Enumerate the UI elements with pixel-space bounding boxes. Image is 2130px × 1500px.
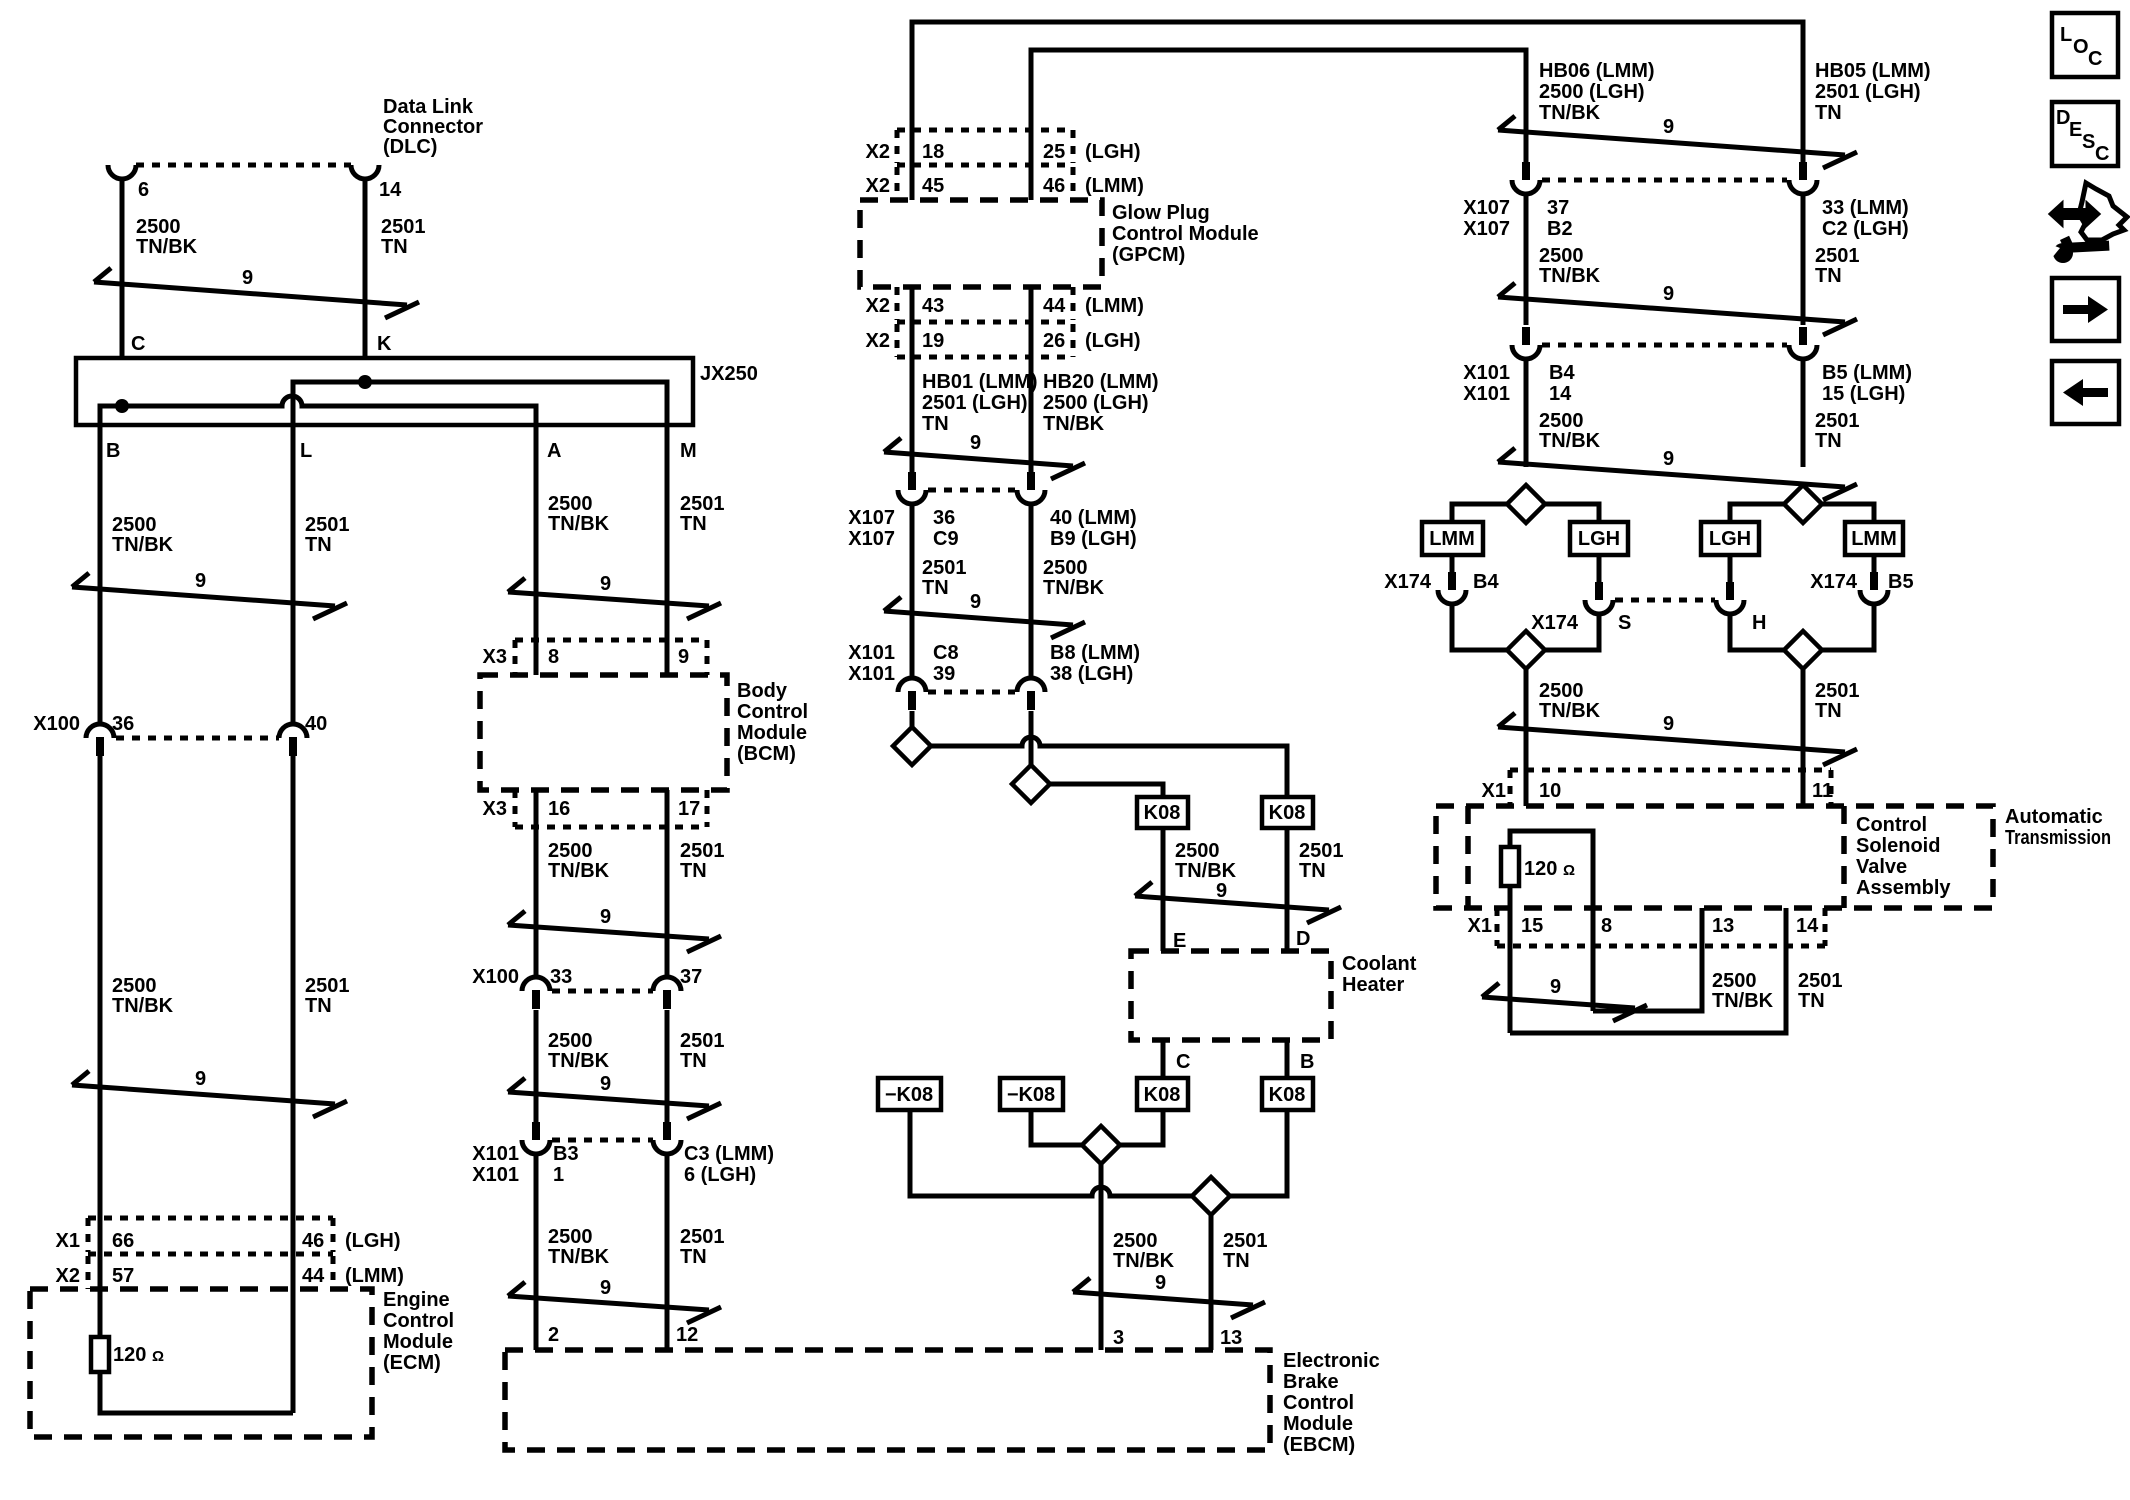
svg-text:6: 6 (138, 179, 149, 201)
net tag LMM (right) (1845, 522, 1903, 555)
svg-text:9: 9 (1663, 713, 1674, 735)
wire 2500 TN/BK splice S3 to EBCM pin 3 (1099, 1164, 1104, 1350)
icon DESC button (2052, 102, 2118, 166)
wire label 2501 TN (1299, 840, 1344, 882)
svg-text:TN: TN (305, 534, 332, 556)
wire label 2501 TN (1798, 970, 1843, 1012)
svg-text:Ω: Ω (1563, 862, 1575, 879)
connector X101 labels (1463, 362, 1510, 405)
svg-text:S: S (2082, 131, 2095, 153)
svg-text:HB06 (LMM): HB06 (LMM) (1539, 60, 1655, 82)
wire 2500 TN/BK below X100 (98, 756, 103, 1337)
svg-text:B2: B2 (1547, 218, 1573, 240)
svg-text:19: 19 (922, 330, 944, 352)
svg-text:8: 8 (1601, 915, 1612, 937)
wire label 2500 TN/BK (136, 216, 198, 258)
inline connector X100 pin 36 (86, 724, 114, 756)
svg-text:Automatic: Automatic (2005, 806, 2103, 828)
wire 2500 TN/BK right (1524, 193, 1529, 325)
wire ECM internal loop (100, 1372, 293, 1413)
svg-text:40: 40 (305, 713, 327, 735)
svg-text:HB01 (LMM): HB01 (LMM) (922, 371, 1038, 393)
svg-text:(ECM): (ECM) (383, 1352, 441, 1374)
svg-text:Control: Control (383, 1310, 454, 1332)
svg-text:2500: 2500 (548, 1030, 593, 1052)
wire label 2500 TN/BK (1113, 1230, 1175, 1272)
svg-text:Module: Module (383, 1331, 453, 1353)
wire HB20 (LMM) 2500 (LGH) TN/BK down from GPCM (1029, 287, 1034, 472)
svg-text:36: 36 (933, 507, 955, 529)
twisted-pair symbol, mid pair, label 9 (884, 591, 1085, 638)
wire LMM box to X174 B4 (1450, 555, 1455, 572)
pin C8 / 39 labels (933, 642, 959, 685)
svg-text:K08: K08 (1144, 802, 1181, 824)
junction block JX250 (76, 358, 693, 425)
svg-text:S: S (1618, 612, 1631, 634)
inline connector X174 pin S (1585, 582, 1613, 614)
ECM label (383, 1289, 454, 1374)
wire 2500 TN/BK to EBCM pin 2 (534, 1153, 539, 1350)
twisted-pair symbol, left pair upper, label 9 (72, 570, 347, 619)
svg-text:TN/BK: TN/BK (1043, 413, 1105, 435)
svg-text:Module: Module (737, 722, 807, 744)
inline connector X107 pin 40/B9 (1017, 472, 1045, 504)
svg-text:6 (LGH): 6 (LGH) (684, 1164, 756, 1186)
svg-text:36: 36 (112, 713, 134, 735)
svg-text:−K08: −K08 (1007, 1084, 1055, 1106)
svg-text:2501: 2501 (922, 557, 967, 579)
svg-text:L: L (2060, 24, 2072, 46)
GPCM connector row X2 (pins 43 / 44, LMM) (866, 287, 1144, 322)
svg-text:TN/BK: TN/BK (1539, 430, 1601, 452)
wire label HB01 (922, 371, 1038, 435)
svg-text:33: 33 (550, 966, 572, 988)
svg-text:X2: X2 (866, 330, 890, 352)
inline connector X100 pin 33 (522, 977, 550, 1009)
wire label 2500 TN/BK (548, 840, 610, 882)
svg-text:2500: 2500 (1539, 410, 1584, 432)
wire 2501 TN pin M down (665, 440, 670, 675)
Automatic Transmission box (1436, 806, 1993, 908)
svg-text:9: 9 (600, 573, 611, 595)
wire label 2501 TN (680, 1226, 725, 1268)
wire bus 2500 TN/BK top (912, 22, 1803, 200)
svg-text:46: 46 (302, 1230, 324, 1252)
wire -K08 mid to splice S3 (1031, 1110, 1082, 1145)
icon back arrow button (2052, 361, 2119, 424)
svg-text:X2: X2 (866, 295, 890, 317)
BCM connector row X3 (pins 16 / 17) (483, 790, 707, 827)
svg-text:X107: X107 (848, 528, 895, 550)
svg-text:16: 16 (548, 798, 570, 820)
twisted-pair symbol, BCM pair upper, label 9 (508, 573, 721, 619)
svg-text:X101: X101 (1463, 362, 1510, 384)
svg-text:2501: 2501 (1815, 680, 1860, 702)
svg-text:15 (LGH): 15 (LGH) (1822, 383, 1905, 405)
svg-text:9: 9 (600, 906, 611, 928)
svg-text:HB20 (LMM): HB20 (LMM) (1043, 371, 1159, 393)
svg-text:C3 (LMM): C3 (LMM) (684, 1143, 774, 1165)
wire LMM box to X174 B5 (1872, 555, 1877, 572)
svg-text:Assembly: Assembly (1856, 877, 1951, 899)
svg-text:2501: 2501 (680, 493, 725, 515)
svg-text:9: 9 (242, 267, 253, 289)
ECM connector row X1 (pins 66 / 46, LGH) (56, 1218, 401, 1254)
wire pin 15 down (1508, 886, 1513, 1033)
svg-text:Coolant: Coolant (1342, 953, 1417, 975)
svg-text:33 (LMM): 33 (LMM) (1822, 197, 1909, 219)
svg-text:C: C (2088, 48, 2102, 70)
twisted-pair symbol, left pair lower, label 9 (72, 1068, 347, 1117)
svg-text:2501: 2501 (305, 975, 350, 997)
wire 2500 TN/BK splice S7 to transmission (1524, 669, 1529, 806)
wire label 2500 TN/BK (1539, 410, 1601, 452)
svg-text:X3: X3 (483, 798, 507, 820)
svg-text:37: 37 (1547, 197, 1569, 219)
inline connector X101 pin C8/39 (898, 678, 926, 710)
transmission connector row X1 (pins 10 / 11) (1482, 770, 1834, 806)
wire label 2501 TN (1815, 410, 1860, 452)
svg-text:46: 46 (1043, 175, 1065, 197)
svg-text:X107: X107 (848, 507, 895, 529)
svg-text:Valve: Valve (1856, 856, 1907, 878)
wire splice S1 to K08 branch with hop (930, 737, 1287, 797)
svg-text:(BCM): (BCM) (737, 743, 796, 765)
wire K08 lower-left to splice S3 (1120, 1110, 1163, 1145)
svg-text:X101: X101 (848, 642, 895, 664)
wire B4 to splice S7 (1452, 603, 1508, 650)
svg-text:K08: K08 (1269, 1084, 1306, 1106)
svg-text:25: 25 (1043, 141, 1065, 163)
wire label 2500 TN/BK (112, 514, 174, 556)
splice S5 (1507, 485, 1545, 523)
junction dot C (115, 399, 129, 413)
svg-text:B4: B4 (1473, 571, 1499, 593)
wire label 2501 TN (922, 557, 967, 599)
wire splice S5 to LGH branch (1545, 504, 1599, 522)
svg-text:X107: X107 (1463, 197, 1510, 219)
connector X174 dashed link S-H (1615, 598, 1715, 603)
svg-text:TN/BK: TN/BK (1539, 700, 1601, 722)
svg-text:2500: 2500 (1539, 245, 1584, 267)
splice S7 (1507, 631, 1545, 669)
wire 2501 TN to EBCM pin 12 (665, 1153, 670, 1350)
svg-text:2501: 2501 (1798, 970, 1843, 992)
svg-text:Solenoid: Solenoid (1856, 835, 1940, 857)
svg-text:10: 10 (1539, 780, 1561, 802)
svg-text:9: 9 (195, 1068, 206, 1090)
fuse K08 (upper right) (1262, 797, 1313, 828)
svg-text:X174: X174 (1384, 571, 1432, 593)
wire coolant heater B down (1285, 1040, 1290, 1078)
wire 2501 TN splice S8 to transmission (1801, 669, 1806, 806)
Data Link Connector (DLC) title (383, 96, 483, 158)
svg-text:TN: TN (1815, 265, 1842, 287)
svg-text:C9: C9 (933, 528, 959, 550)
pin 37 / B2 labels (1547, 197, 1573, 240)
svg-text:120: 120 (113, 1344, 146, 1366)
svg-text:Control: Control (1856, 814, 1927, 836)
wire label 2500 TN/BK (1712, 970, 1774, 1012)
svg-text:B3: B3 (553, 1143, 579, 1165)
svg-text:12: 12 (676, 1324, 698, 1346)
svg-text:2500: 2500 (1175, 840, 1220, 862)
junction dot K (358, 375, 372, 389)
fuse -K08 (left) (878, 1078, 941, 1110)
svg-text:O: O (2073, 36, 2089, 58)
svg-text:2500: 2500 (1113, 1230, 1158, 1252)
resistor value 120 ohm (1524, 858, 1575, 880)
svg-text:2500: 2500 (112, 975, 157, 997)
svg-text:X100: X100 (33, 713, 80, 735)
GPCM connector row X2 (pins 18 / 25, LGH) (866, 130, 1141, 165)
fuse K08 (lower right) (1262, 1078, 1313, 1110)
wire LGH box to X174 H (1728, 555, 1733, 582)
svg-text:B5: B5 (1888, 571, 1914, 593)
svg-text:LMM: LMM (1851, 528, 1897, 550)
connector terminal DLC pin 6 terminal (108, 165, 136, 179)
svg-text:2501: 2501 (1815, 410, 1860, 432)
svg-text:38 (LGH): 38 (LGH) (1050, 663, 1133, 685)
svg-text:120: 120 (1524, 858, 1557, 880)
wire 2501 TN pin L down (291, 440, 296, 725)
pin C3 (LMM) / 6 (LGH) labels (684, 1143, 774, 1186)
icon next arrow button (2052, 278, 2119, 341)
svg-text:(DLC): (DLC) (383, 136, 437, 158)
svg-text:9: 9 (1550, 976, 1561, 998)
svg-text:Data Link: Data Link (383, 96, 474, 118)
splice S6 (1784, 485, 1822, 523)
JX250 internal bus line 1 (K to L and M) (293, 382, 667, 440)
svg-text:Module: Module (1283, 1413, 1353, 1435)
svg-text:TN: TN (1798, 990, 1825, 1012)
resistor ECM terminating 120 ohm (91, 1337, 109, 1372)
EBCM label (1283, 1350, 1380, 1456)
Control Solenoid Valve Assembly inner box edges (1465, 806, 1471, 908)
wire label 2500 TN/BK (1175, 840, 1237, 882)
Body Control Module (BCM) box (480, 675, 727, 790)
inline connector X107 pin 37/B2 (1512, 162, 1540, 194)
svg-text:Engine: Engine (383, 1289, 450, 1311)
svg-text:2501: 2501 (1815, 245, 1860, 267)
wire 2501 TN below X100 (291, 756, 296, 1413)
wire label 2501 TN (680, 493, 725, 535)
pin 36 / C9 labels (933, 507, 959, 550)
svg-text:15: 15 (1521, 915, 1543, 937)
wire label 2500 TN/BK (1043, 557, 1105, 599)
svg-text:TN/BK: TN/BK (548, 860, 610, 882)
svg-text:(LGH): (LGH) (345, 1230, 401, 1252)
connector terminal DLC pin 14 terminal (351, 165, 379, 179)
twisted-pair symbol, BCM pair mid, label 9 (508, 906, 721, 952)
svg-text:TN/BK: TN/BK (112, 995, 174, 1017)
svg-text:X1: X1 (1482, 780, 1506, 802)
svg-text:X101: X101 (472, 1143, 519, 1165)
inline connector X101 pin B8/38 (1017, 678, 1045, 710)
svg-text:TN/BK: TN/BK (1043, 577, 1105, 599)
svg-text:A: A (547, 440, 561, 462)
svg-text:2500: 2500 (548, 840, 593, 862)
fuse K08 (lower left) (1137, 1078, 1188, 1110)
svg-text:Ω: Ω (152, 1348, 164, 1365)
svg-text:Control Module: Control Module (1112, 223, 1259, 245)
wire 2501 TN right lower (1801, 358, 1806, 467)
wire 2501 TN right (1801, 193, 1806, 325)
svg-text:39: 39 (933, 663, 955, 685)
svg-text:45: 45 (922, 175, 944, 197)
wire label 2501 TN (381, 216, 426, 258)
svg-text:X1: X1 (56, 1230, 80, 1252)
svg-text:44: 44 (1043, 295, 1066, 317)
svg-text:18: 18 (922, 141, 944, 163)
svg-text:X100: X100 (472, 966, 519, 988)
Automatic Transmission label (2005, 806, 2111, 849)
wire label 2500 TN/BK (112, 975, 174, 1017)
svg-text:C: C (131, 333, 145, 355)
inline connector X100 pin 40 (279, 724, 307, 756)
svg-text:X2: X2 (866, 141, 890, 163)
pin B5 (LMM) / 15 (LGH) labels (1822, 362, 1912, 405)
icon LOC button (2052, 13, 2118, 77)
svg-text:Brake: Brake (1283, 1371, 1339, 1393)
svg-text:13: 13 (1220, 1327, 1242, 1349)
svg-text:2500: 2500 (1043, 557, 1088, 579)
icon diagnostic wrench with double arrow (2044, 183, 2127, 263)
wire 2500 TN/BK from DLC pin 6 (120, 178, 125, 406)
DLC connector dashed link (136, 163, 351, 168)
wire to splice (910, 711, 915, 728)
svg-text:B4: B4 (1549, 362, 1575, 384)
svg-text:9: 9 (600, 1277, 611, 1299)
wire 2500 TN/BK BCM pin 16 down (534, 790, 539, 979)
wire 2501 TN K08 to coolant heater D (1285, 828, 1290, 951)
svg-text:TN: TN (1223, 1250, 1250, 1272)
svg-text:2501: 2501 (680, 1226, 725, 1248)
wire pin 14 loop (1510, 908, 1786, 1033)
Electronic Brake Control Module (EBCM) box (505, 1350, 1270, 1450)
GPCM connector row X2 (pins 19 / 26, LGH) (866, 324, 1141, 357)
twisted-pair symbol, DLC pair, label 9 (94, 267, 419, 318)
svg-text:Electronic: Electronic (1283, 1350, 1380, 1372)
svg-text:2501 (LGH): 2501 (LGH) (922, 392, 1028, 414)
svg-text:−K08: −K08 (885, 1084, 933, 1106)
wire 2500 TN/BK pin B down (98, 440, 103, 725)
resistor value 120 ohm (113, 1344, 164, 1366)
BCM connector row X3 (pins 8 / 9) (483, 640, 707, 675)
ECM connector row X2 (pins 57 / 44, LMM) (56, 1256, 404, 1289)
svg-text:2501: 2501 (680, 840, 725, 862)
wire 2501 TN BCM pin 17 down (665, 790, 670, 979)
svg-text:X101: X101 (848, 663, 895, 685)
connector X101 labels (848, 642, 895, 685)
svg-text:14: 14 (1549, 383, 1572, 405)
inline connector X101 pin B5/15 (1789, 327, 1817, 359)
twisted-pair symbol, right pair 2, label 9 (1498, 283, 1857, 335)
svg-text:2: 2 (548, 1324, 559, 1346)
twisted-pair symbol, right pair 1, label 9 (1498, 116, 1857, 168)
wire 2501 TN from DLC pin 14 (363, 178, 368, 382)
connector X107 dashed link (1542, 178, 1787, 183)
wire splice S6 to LMM branch (1822, 504, 1874, 522)
svg-text:K08: K08 (1269, 802, 1306, 824)
svg-text:B5 (LMM): B5 (LMM) (1822, 362, 1912, 384)
svg-text:TN: TN (1815, 700, 1842, 722)
inline connector X174 pin H (1716, 582, 1744, 614)
splice S8 (1784, 631, 1822, 669)
svg-text:TN: TN (922, 577, 949, 599)
svg-text:9: 9 (1155, 1272, 1166, 1294)
Coolant Heater box (1131, 951, 1331, 1040)
wire label 2501 TN (1815, 680, 1860, 722)
inline connector X174 pin B4 (1438, 572, 1466, 604)
svg-text:TN: TN (1815, 102, 1842, 124)
svg-text:9: 9 (970, 591, 981, 613)
wire B5 to splice S8 (1821, 603, 1874, 650)
svg-text:K08: K08 (1144, 1084, 1181, 1106)
wire label HB20 (1043, 371, 1159, 435)
BCM label (737, 680, 808, 765)
twisted-pair symbol, BCM pair bottom, label 9 (508, 1277, 721, 1323)
wire bus 2501 TN second (1031, 50, 1526, 200)
svg-text:X1: X1 (1468, 915, 1492, 937)
wire label HB06 (LMM) 2500 (LGH) TN/BK (1539, 60, 1655, 124)
net tag LMM (left) (1422, 522, 1483, 555)
svg-text:C2 (LGH): C2 (LGH) (1822, 218, 1909, 240)
svg-text:K: K (377, 333, 392, 355)
svg-text:TN/BK: TN/BK (548, 1050, 610, 1072)
svg-text:37: 37 (680, 966, 702, 988)
svg-text:2501: 2501 (680, 1030, 725, 1052)
wire K08 lower-right to splice S4 (1230, 1110, 1287, 1196)
wire 2500 TN/BK mid (1029, 503, 1034, 678)
svg-text:(EBCM): (EBCM) (1283, 1434, 1355, 1456)
svg-text:HB05 (LMM): HB05 (LMM) (1815, 60, 1931, 82)
wire label 2501 TN (305, 514, 350, 556)
wire label 2501 TN (1815, 245, 1860, 287)
svg-text:X3: X3 (483, 646, 507, 668)
svg-text:TN: TN (1815, 430, 1842, 452)
inline connector X107 pin 33/C2 (1789, 162, 1817, 194)
svg-text:(LMM): (LMM) (1085, 295, 1144, 317)
svg-text:(LMM): (LMM) (345, 1265, 404, 1287)
svg-text:2501: 2501 (1223, 1230, 1268, 1252)
wire label HB05 (LMM) 2501 (LGH) TN (1815, 60, 1931, 124)
wire label 2501 TN (680, 1030, 725, 1072)
svg-text:9: 9 (600, 1073, 611, 1095)
wire label 2500 TN/BK (548, 1226, 610, 1268)
svg-text:43: 43 (922, 295, 944, 317)
wire 2501 TN splice S4 to EBCM pin 13 (1209, 1215, 1214, 1350)
wire label 2500 TN/BK (548, 1030, 610, 1072)
wire H to splice S8 (1730, 613, 1785, 650)
svg-text:14: 14 (1796, 915, 1819, 937)
svg-text:TN/BK: TN/BK (1539, 265, 1601, 287)
splice S4 (1192, 1177, 1230, 1215)
connector X101 dashed link (928, 690, 1015, 695)
twisted-pair symbol, GPCM pair, label 9 (884, 432, 1085, 479)
JX250 internal bus line 2 (C to B and A) with hop over L (100, 396, 536, 440)
svg-text:44: 44 (302, 1265, 325, 1287)
twisted-pair symbol, BCM pair lower, label 9 (508, 1073, 721, 1119)
svg-text:2500: 2500 (548, 1226, 593, 1248)
Engine Control Module (ECM) box (30, 1289, 372, 1437)
svg-text:(LGH): (LGH) (1085, 141, 1141, 163)
wire HB01 (LMM) 2501 (LGH) TN down from GPCM (910, 287, 915, 472)
wire 2501 TN below X100 (665, 1010, 670, 1122)
svg-text:M: M (680, 440, 697, 462)
wire 2500 TN/BK below X100 (534, 1010, 539, 1122)
wire 2500 TN/BK K08 to coolant heater E (1161, 828, 1166, 951)
